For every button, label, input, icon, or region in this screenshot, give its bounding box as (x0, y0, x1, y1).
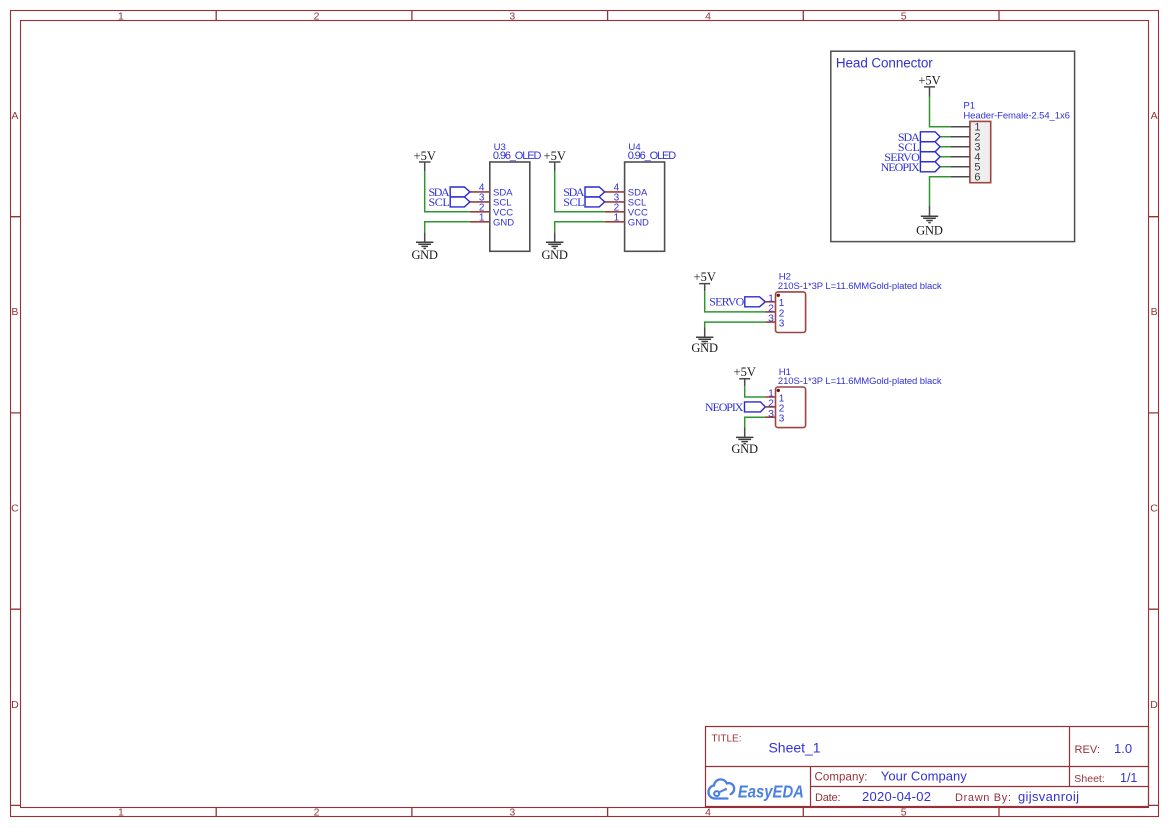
svg-text:+5V: +5V (734, 365, 756, 379)
svg-text:210S-1*3P L=11.6MMGold-plated: 210S-1*3P L=11.6MMGold-plated black (778, 281, 942, 292)
svg-text:3: 3 (509, 11, 515, 23)
svg-text:D: D (11, 699, 19, 711)
svg-text:Head Connector: Head Connector (836, 55, 933, 70)
svg-text:GND: GND (916, 224, 943, 238)
svg-text:REV:: REV: (1075, 744, 1101, 756)
svg-text:2: 2 (314, 11, 320, 23)
svg-text:4: 4 (705, 807, 711, 819)
svg-text:+5V: +5V (414, 149, 436, 163)
svg-text:6: 6 (974, 172, 980, 184)
svg-text:GND: GND (493, 217, 514, 228)
svg-text:+5V: +5V (694, 270, 716, 284)
svg-text:3: 3 (768, 313, 774, 325)
svg-text:A: A (11, 110, 18, 122)
svg-text:SCL: SCL (429, 195, 450, 209)
svg-text:0.96_OLED: 0.96_OLED (493, 150, 542, 162)
svg-text:D: D (1150, 699, 1158, 711)
svg-text:GND: GND (412, 248, 438, 262)
svg-text:C: C (1150, 503, 1158, 515)
svg-text:2020-04-02: 2020-04-02 (862, 789, 931, 804)
svg-text:1: 1 (118, 807, 124, 819)
svg-text:GND: GND (731, 442, 758, 456)
svg-text:SERVO: SERVO (709, 295, 744, 309)
svg-text:Sheet_1: Sheet_1 (769, 740, 821, 756)
svg-text:A: A (1151, 110, 1158, 122)
svg-text:Your Company: Your Company (881, 769, 968, 784)
svg-text:Drawn By:: Drawn By: (955, 792, 1011, 804)
svg-text:5: 5 (901, 807, 907, 819)
svg-text:2: 2 (314, 807, 320, 819)
svg-text:3: 3 (779, 319, 785, 330)
svg-text:Company:: Company: (815, 772, 868, 784)
svg-text:Sheet:: Sheet: (1074, 773, 1105, 785)
svg-text:4: 4 (705, 11, 711, 23)
svg-text:Date:: Date: (815, 792, 841, 804)
svg-text:C: C (11, 503, 19, 515)
svg-text:NEOPIX: NEOPIX (881, 160, 921, 174)
svg-text:1: 1 (118, 11, 124, 23)
svg-text:1.0: 1.0 (1114, 741, 1132, 756)
svg-text:1/1: 1/1 (1120, 771, 1137, 785)
svg-text:3: 3 (768, 408, 774, 420)
svg-text:5: 5 (901, 11, 907, 23)
svg-text:B: B (1151, 306, 1158, 318)
svg-text:1: 1 (479, 212, 485, 223)
svg-text:+5V: +5V (544, 149, 566, 163)
svg-text:210S-1*3P L=11.6MMGold-plated: 210S-1*3P L=11.6MMGold-plated black (778, 376, 942, 387)
svg-text:GND: GND (691, 341, 718, 355)
svg-text:EasyEDA: EasyEDA (738, 781, 804, 801)
svg-text:3: 3 (779, 414, 785, 425)
svg-text:0.96_OLED: 0.96_OLED (628, 150, 677, 162)
svg-text:TITLE:: TITLE: (712, 734, 742, 745)
svg-text:GND: GND (542, 248, 568, 262)
svg-text:Header-Female-2.54_1x6: Header-Female-2.54_1x6 (963, 110, 1070, 121)
svg-text:B: B (11, 306, 18, 318)
svg-text:3: 3 (509, 807, 515, 819)
svg-text:gijsvanroij: gijsvanroij (1018, 789, 1079, 804)
svg-text:+5V: +5V (918, 73, 940, 87)
svg-text:NEOPIX: NEOPIX (705, 400, 744, 414)
